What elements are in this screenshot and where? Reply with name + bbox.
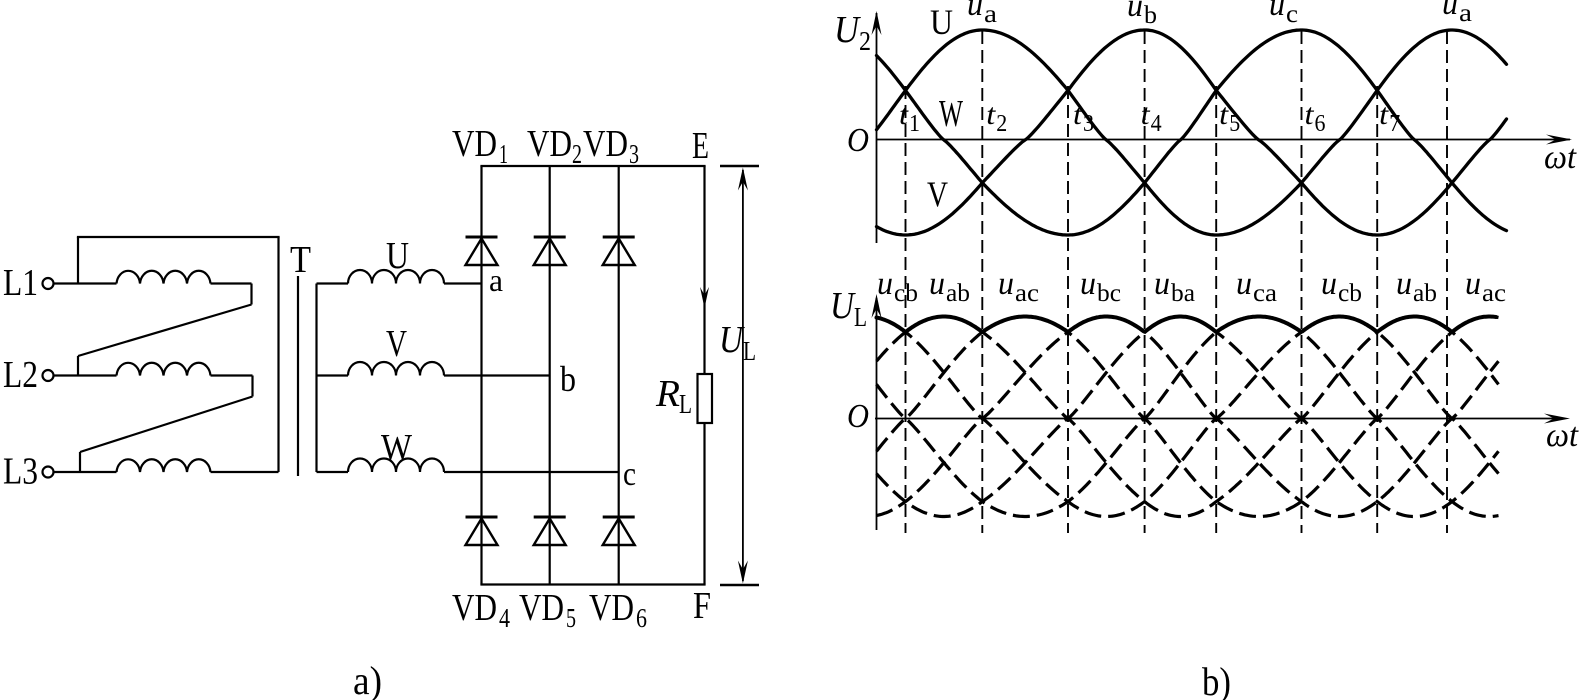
svg-text:u: u [1396, 266, 1412, 302]
svg-text:u: u [929, 266, 945, 302]
wire: diagonal 1 [78, 305, 252, 357]
wire: VD1 column [480, 166, 482, 585]
wire: W lead left [317, 471, 349, 473]
diode VD6 [603, 516, 635, 519]
axis: bottom x-axis [875, 418, 1563, 420]
wire: diagonal 2 [80, 397, 253, 453]
svg-text:a): a) [353, 658, 382, 700]
svg-text:VD: VD [452, 123, 497, 165]
svg-text:V: V [927, 174, 948, 214]
svg-text:6: 6 [1315, 111, 1326, 137]
gridline t4 dashed vertical [1144, 31, 1146, 533]
gridline t2 dashed vertical [981, 31, 983, 533]
svg-text:5: 5 [566, 603, 576, 633]
terminal L1 [43, 278, 54, 289]
svg-text:cb: cb [894, 280, 918, 307]
svg-text:F: F [693, 585, 711, 627]
curve: line voltage dashed 3 [877, 317, 1499, 517]
svg-text:u: u [1321, 266, 1337, 302]
svg-text:c: c [623, 456, 636, 493]
svg-text:ab: ab [946, 280, 970, 307]
svg-text:bc: bc [1097, 280, 1121, 307]
diode VD2 [534, 236, 566, 239]
UL dimension top tick [720, 165, 759, 167]
svg-text:2: 2 [996, 111, 1007, 137]
svg-text:c: c [1286, 1, 1298, 28]
svg-text:L1: L1 [3, 262, 38, 304]
gridline t1 dashed vertical [905, 86, 907, 533]
svg-text:VD: VD [452, 587, 497, 629]
svg-text:ac: ac [1482, 280, 1506, 307]
axis: top x-axis [877, 139, 1571, 141]
svg-text:L2: L2 [3, 354, 38, 396]
terminal L2 [43, 370, 54, 381]
svg-text:2: 2 [859, 26, 871, 56]
wire: secondary rail [315, 284, 317, 473]
svg-text:2: 2 [572, 139, 582, 169]
svg-text:L: L [854, 302, 867, 332]
svg-text:u: u [1269, 0, 1285, 23]
svg-text:4: 4 [1151, 111, 1162, 137]
svg-text:L: L [679, 389, 692, 419]
svg-text:t: t [1219, 98, 1229, 131]
svg-text:L3: L3 [3, 451, 38, 493]
UL dimension arrow up [738, 168, 748, 191]
wire: coil1 output [211, 282, 252, 284]
secondary winding U [348, 270, 444, 284]
svg-text:t: t [1305, 98, 1315, 131]
svg-text:VD: VD [519, 587, 564, 629]
svg-text:W: W [939, 93, 963, 135]
terminal L3 [43, 467, 54, 478]
gridline t8 dashed vertical [1446, 31, 1448, 533]
curve: line voltage dashed 5 [877, 317, 1499, 517]
svg-text:b: b [1144, 2, 1157, 29]
secondary winding W [348, 459, 444, 473]
svg-text:5: 5 [1229, 111, 1240, 137]
svg-text:W: W [381, 427, 412, 469]
wire: vertical into L2 [77, 356, 79, 376]
svg-text:t: t [1141, 98, 1151, 131]
wire: V to node b [444, 374, 550, 376]
wire: coil3 output [211, 471, 279, 473]
svg-text:u: u [1236, 266, 1252, 302]
svg-text:ab: ab [1413, 280, 1437, 307]
svg-text:3: 3 [629, 139, 639, 169]
svg-text:t: t [1073, 98, 1083, 131]
transformer T core line [297, 276, 299, 476]
svg-text:ca: ca [1253, 280, 1277, 307]
svg-text:u: u [998, 266, 1014, 302]
wire: right column E-F [703, 166, 705, 585]
svg-text:ωt: ωt [1544, 139, 1577, 176]
svg-text:cb: cb [1338, 280, 1362, 307]
svg-text:VD: VD [527, 123, 572, 165]
svg-text:t: t [899, 98, 909, 131]
svg-text:U: U [834, 9, 861, 51]
wire: vertical into L3 [79, 452, 81, 472]
svg-text:U: U [719, 319, 745, 361]
wire: bridge bottom rail [480, 583, 705, 585]
svg-text:ac: ac [1015, 280, 1039, 307]
wire: W to node c [444, 471, 619, 473]
svg-text:1: 1 [499, 139, 508, 169]
svg-text:ωt: ωt [1546, 417, 1579, 454]
svg-text:6: 6 [636, 603, 647, 633]
svg-text:1: 1 [909, 111, 920, 137]
wire: L1 lead [54, 282, 117, 284]
wire: VD2 column [549, 166, 551, 585]
axis: bottom x-axis arrowhead [1544, 414, 1570, 424]
svg-text:t: t [1379, 98, 1389, 131]
svg-text:U: U [930, 2, 953, 42]
svg-text:T: T [290, 239, 311, 281]
primary winding coil 3 [117, 459, 211, 472]
svg-text:U: U [386, 235, 409, 277]
svg-text:R: R [655, 373, 680, 415]
curve: line voltage dashed 1 [877, 317, 1499, 517]
svg-text:VD: VD [589, 587, 634, 629]
svg-text:u: u [1465, 266, 1481, 302]
wire: delta right vertical [277, 237, 279, 472]
wire: VD3 column [618, 166, 620, 585]
svg-text:a: a [984, 1, 997, 28]
UL dimension bottom tick [720, 584, 759, 586]
primary winding coil 1 [117, 271, 211, 284]
svg-text:ba: ba [1171, 280, 1195, 307]
svg-text:u: u [1127, 0, 1143, 24]
axis: top y-axis [876, 13, 878, 243]
resistor RL body [698, 374, 713, 423]
svg-text:VD: VD [583, 123, 628, 165]
svg-text:4: 4 [499, 603, 510, 633]
axis: bottom y-axis arrowhead [872, 294, 882, 318]
svg-text:a: a [489, 262, 503, 298]
wire: V lead left [317, 374, 349, 376]
svg-text:u: u [967, 0, 983, 23]
svg-text:b: b [560, 359, 576, 399]
svg-text:O: O [847, 398, 869, 435]
primary winding coil 2 [117, 363, 211, 376]
gridline t6 dashed vertical [1301, 31, 1303, 533]
UL dimension line [742, 170, 744, 581]
svg-text:E: E [692, 125, 709, 167]
curve: rectified envelope UL [877, 317, 1497, 332]
curve: phase U [877, 30, 1507, 235]
wire: U lead left [317, 282, 349, 284]
svg-text:7: 7 [1389, 111, 1400, 137]
svg-text:U: U [830, 285, 856, 327]
curve: phase V [877, 30, 1507, 235]
axis: top y-axis arrowhead [872, 11, 882, 35]
current arrow on load [700, 287, 709, 308]
gridline t7 dashed vertical [1376, 86, 1378, 533]
wire: bridge top rail [480, 165, 705, 167]
wire: L3 lead [54, 471, 117, 473]
axis: top x-axis arrowhead [1546, 135, 1572, 145]
curve: line voltage dashed 2 [877, 317, 1499, 517]
wire: coil2 output [211, 374, 253, 376]
svg-text:u: u [1442, 0, 1458, 22]
wire: delta left vertical [77, 237, 79, 284]
gridline t5 dashed vertical [1215, 86, 1217, 533]
wire: delta top rail [77, 236, 280, 238]
axis: bottom y-axis [876, 298, 878, 530]
diode VD1 [466, 236, 498, 239]
svg-text:b): b) [1202, 659, 1231, 700]
svg-text:u: u [1080, 266, 1096, 302]
svg-text:t: t [986, 98, 996, 131]
diode VD4 [466, 516, 498, 519]
svg-text:u: u [877, 266, 893, 302]
svg-text:3: 3 [1083, 111, 1094, 137]
svg-text:O: O [847, 122, 869, 159]
wire: L2 lead [54, 374, 117, 376]
wire: zig vertical 1 [250, 284, 252, 305]
svg-text:L: L [743, 336, 756, 366]
wire: U to node a [444, 282, 482, 284]
wire: zig vertical 2 [251, 376, 253, 397]
curve: line voltage dashed 6 [877, 317, 1499, 517]
svg-text:V: V [386, 323, 407, 365]
curve: phase W [877, 30, 1507, 235]
diode VD3 [603, 236, 635, 239]
curve: line voltage dashed 4 [877, 317, 1499, 517]
svg-text:u: u [1154, 266, 1170, 302]
svg-text:a: a [1459, 0, 1472, 27]
gridline t3 dashed vertical [1067, 86, 1069, 533]
secondary winding V [348, 362, 444, 376]
diode VD5 [534, 516, 566, 519]
UL dimension arrow down [738, 561, 748, 584]
